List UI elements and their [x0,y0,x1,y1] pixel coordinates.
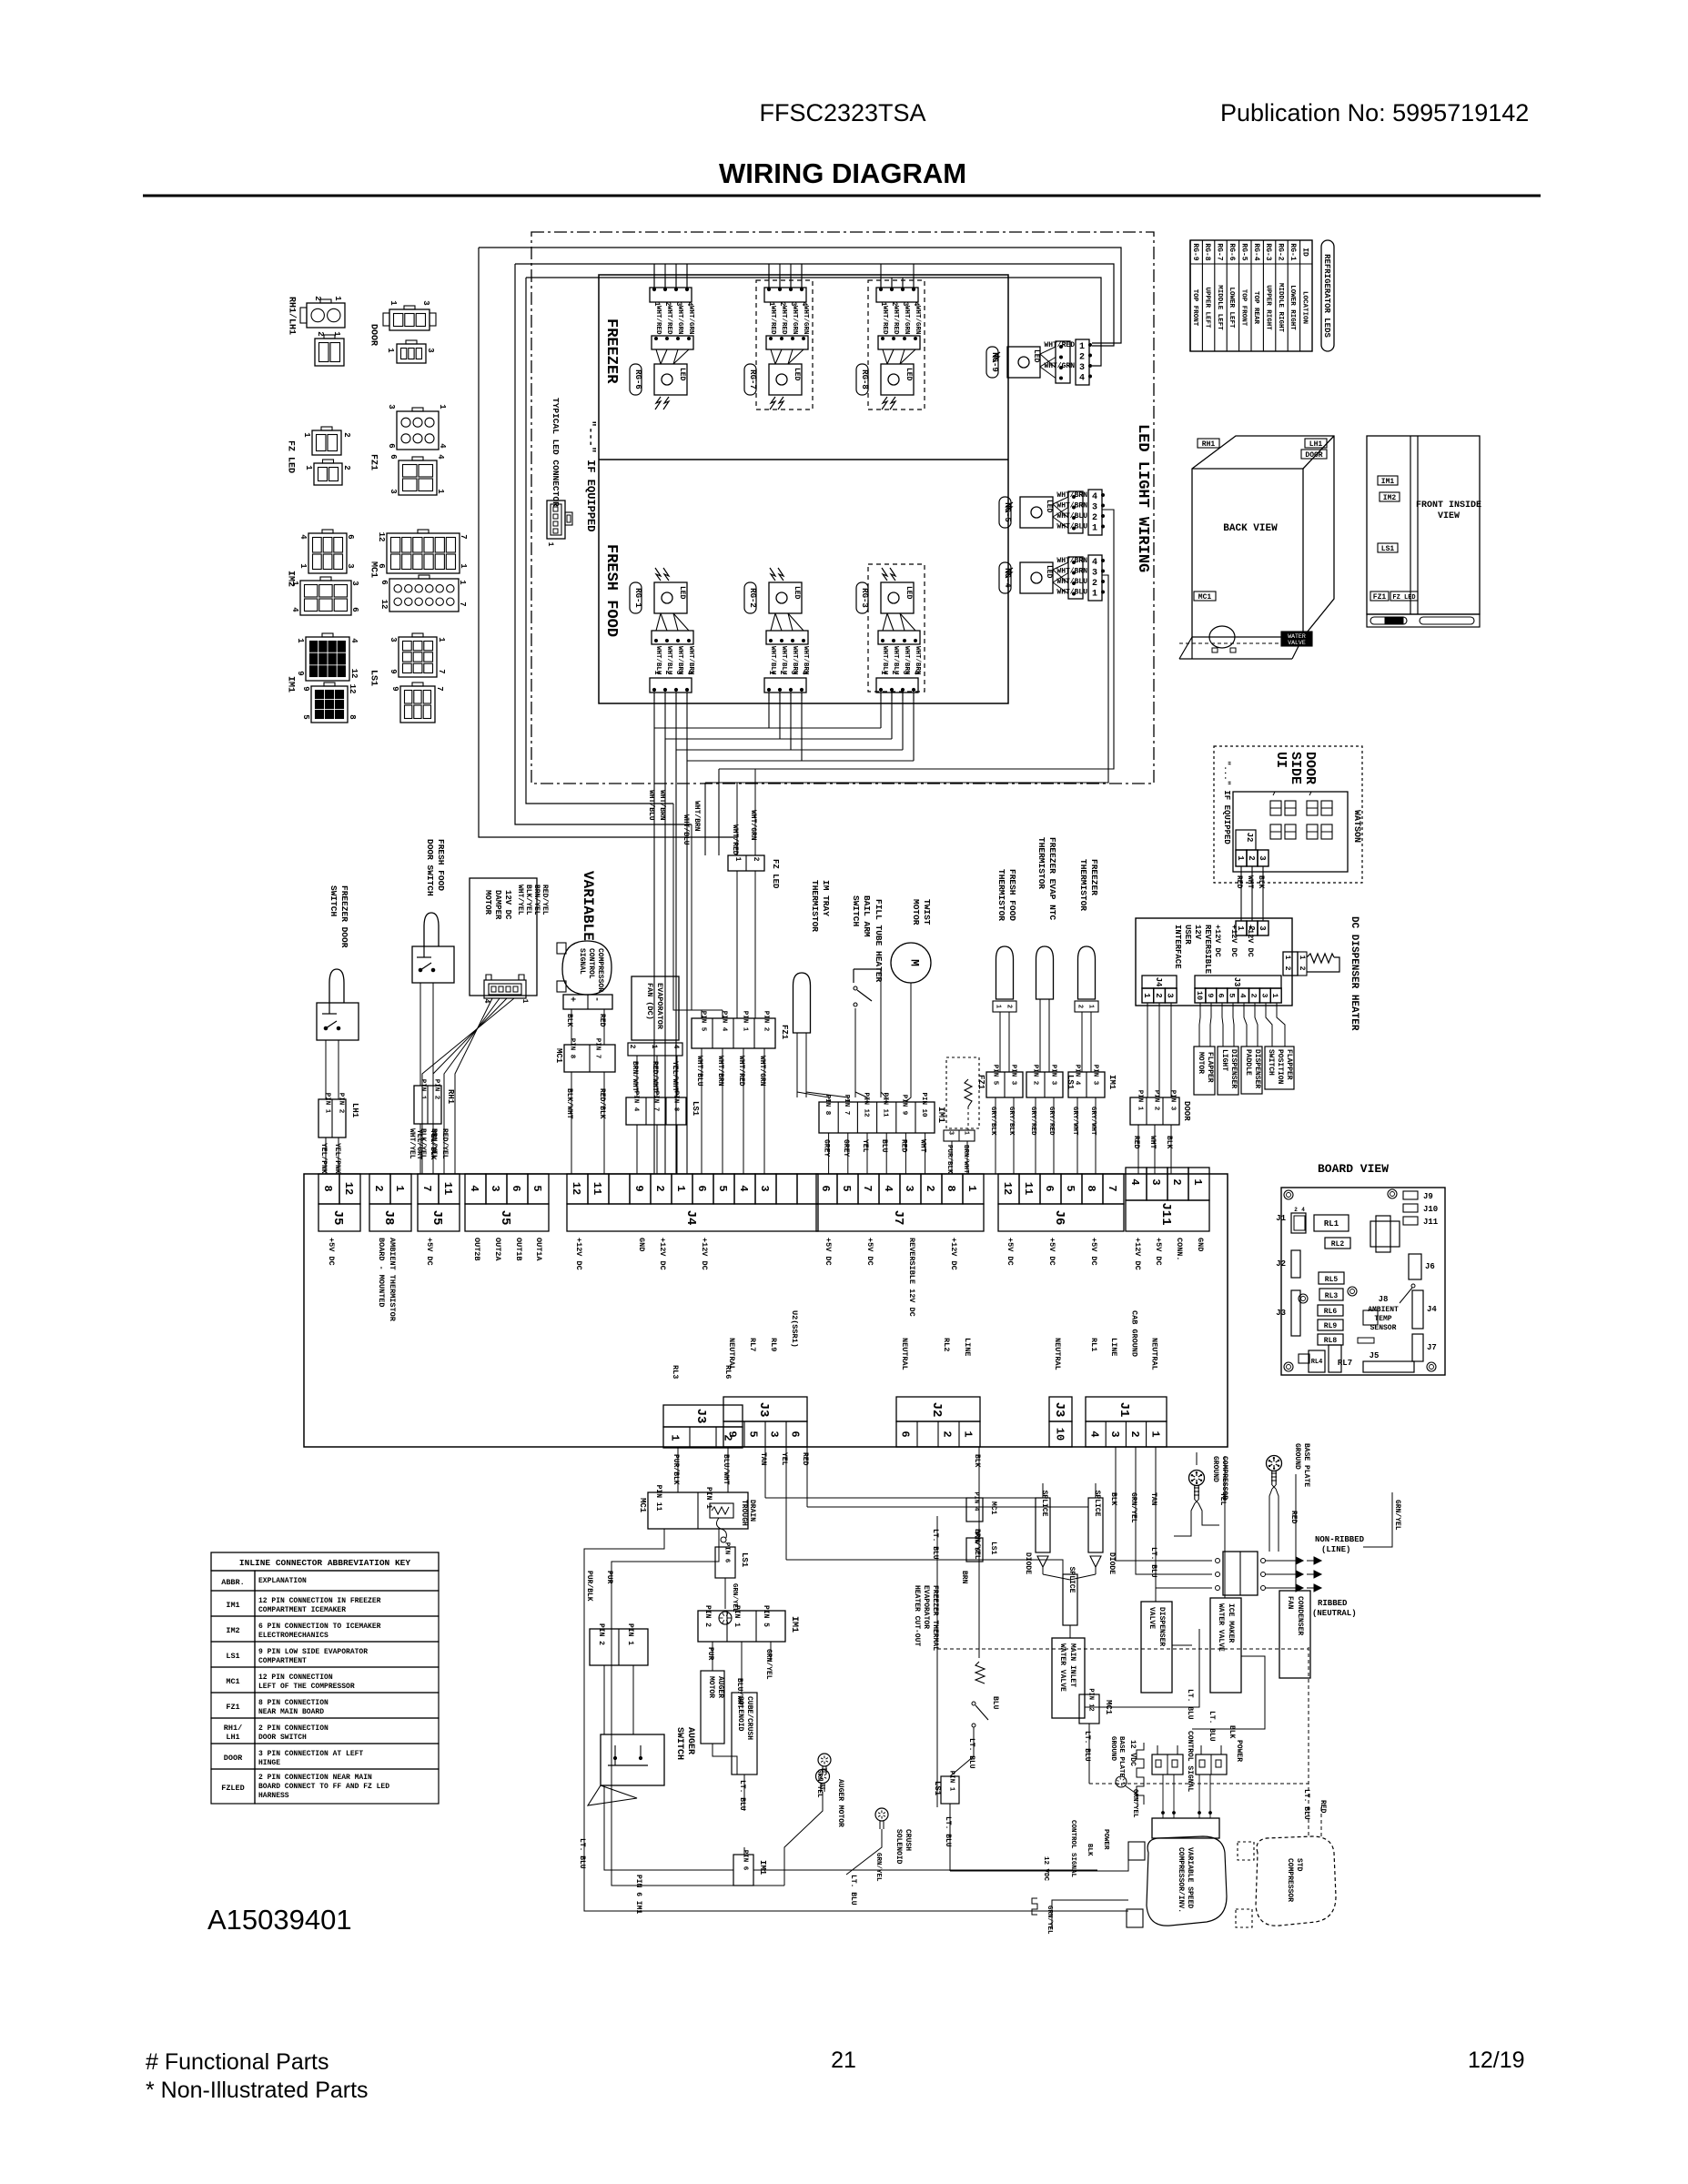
drain trough heater [710,1503,733,1518]
svg-text:BLK: BLK [565,1014,573,1027]
im tray thermistor bulb [793,973,811,1033]
svg-text:LED: LED [1045,565,1053,579]
svg-text:OUT2B: OUT2B [472,1238,481,1261]
svg-text:BLK: BLK [1086,1844,1093,1856]
svg-text:3: 3 [389,489,398,493]
svg-text:LED: LED [1032,349,1040,363]
svg-text:RG-7: RG-7 [1216,243,1224,260]
svg-text:SWITCH: SWITCH [329,885,339,917]
bottom connector J2 [896,1397,980,1421]
svg-text:COMPRESSOR: COMPRESSOR [1286,1858,1294,1902]
front inside view label FZ1 [1370,591,1389,601]
svg-text:8: 8 [321,1185,334,1191]
svg-text:DOOR: DOOR [224,1754,243,1763]
svg-text:GRN/YEL: GRN/YEL [1129,1492,1137,1523]
svg-text:4: 4 [349,638,359,643]
svg-text:YEL: YEL [861,1139,869,1153]
svg-text:PIN 4: PIN 4 [973,1491,980,1511]
svg-text:7: 7 [1106,1185,1118,1191]
svg-text:TOP FRONT: TOP FRONT [1191,289,1198,327]
svg-text:RL2: RL2 [1331,1240,1345,1249]
svg-text:12 VDC: 12 VDC [1042,1856,1049,1882]
FZ LED wires [736,783,738,855]
dispenser valve box [1141,1602,1172,1693]
svg-text:PIN 8: PIN 8 [672,1091,679,1112]
svg-text:RH1: RH1 [1202,440,1216,449]
svg-text:WHT/RED: WHT/RED [737,1056,745,1087]
svg-text:4: 4 [1128,1178,1141,1185]
connector LS1 receptacle view [400,686,435,723]
svg-text:POWER: POWER [1102,1829,1109,1850]
label RG-2 [744,582,756,613]
freezer door switch pin box LH1 [318,1099,346,1137]
svg-text:1: 1 [436,489,445,494]
svg-text:OUT1A: OUT1A [534,1238,543,1261]
svg-text:RL3: RL3 [671,1365,680,1379]
variable speed compressor blob [1147,1836,1227,1926]
connector J3 on user interface [1195,976,1281,988]
svg-text:NON-RIBBED: NON-RIBBED [1315,1535,1365,1544]
cube crush solenoid box [732,1693,757,1774]
svg-text:FREEZER: FREEZER [1089,859,1099,895]
svg-text:THERMISTOR: THERMISTOR [996,869,1006,921]
svg-text:NEUTRAL: NEUTRAL [727,1338,736,1370]
wire loop outer [515,264,1114,346]
svg-text:9: 9 [1206,993,1215,997]
svg-text:GRN/YEL: GRN/YEL [815,1769,823,1798]
svg-text:J8: J8 [381,1210,396,1226]
board view relay RL5 [1319,1272,1344,1284]
svg-text:11: 11 [441,1182,454,1195]
svg-text:COMPRESSOR/INV.: COMPRESSOR/INV. [1177,1847,1185,1913]
svg-text:12V DC: 12V DC [503,890,512,920]
svg-text:SWITCH: SWITCH [1267,1049,1275,1076]
svg-text:FFSC2323TSA: FFSC2323TSA [759,99,925,126]
svg-text:1: 1 [332,331,341,337]
svg-text:USER: USER [1183,925,1192,945]
svg-text:4: 4 [737,1185,750,1191]
svg-text:RG-1: RG-1 [633,588,642,608]
svg-text:J5: J5 [498,1210,512,1226]
label RG-9 [986,347,998,378]
svg-text:6: 6 [379,580,389,584]
svg-text:TROUGH: TROUGH [740,1500,748,1526]
connector RH1/LH1 receptacle view [315,339,344,366]
svg-text:2: 2 [924,1185,936,1191]
wires user interface J4 to DOOR connector [1147,1003,1148,1097]
connector IM1 plug view [306,637,349,681]
svg-text:+12V DC: +12V DC [1213,925,1222,957]
freezer / fresh food LED enclosure [599,275,1008,703]
svg-text:STD: STD [1295,1858,1303,1872]
svg-text:LS1: LS1 [691,1101,700,1117]
connector IM2 receptacle view [300,581,351,615]
connector FZ LED plug view [312,430,341,455]
svg-text:DOOR: DOOR [1182,1101,1191,1121]
evaporator fan connector [628,1043,682,1056]
std compressor dashed wires [1308,1647,1309,1836]
svg-text:COMPARTMENT ICEMAKER: COMPARTMENT ICEMAKER [258,1606,346,1614]
FZ1 wires down [701,1048,702,1174]
svg-text:LS1: LS1 [933,1781,942,1796]
svg-text:J5: J5 [430,1210,444,1226]
svg-text:1: 1 [290,581,299,586]
connector J6 pin row [998,1174,1019,1204]
connector J8 pin row [369,1174,390,1204]
flapper motor box [1194,1046,1215,1095]
svg-text:MOTOR: MOTOR [1197,1052,1205,1074]
svg-text:BLK/WHT: BLK/WHT [565,1088,573,1119]
svg-text:RL5: RL5 [1325,1276,1339,1284]
svg-text:6: 6 [387,443,396,448]
svg-text:2: 2 [1298,966,1306,971]
freezer thermistor inline pins [1075,1001,1098,1012]
connector J4 on user interface [1142,976,1177,988]
svg-text:J3: J3 [756,1402,771,1418]
svg-text:3: 3 [1079,363,1085,373]
svg-text:7: 7 [420,1185,433,1191]
svg-text:J3: J3 [693,1409,708,1424]
svg-text:PUR/BLK: PUR/BLK [585,1571,593,1602]
svg-text:1: 1 [963,1131,970,1135]
svg-text:DISPENSER: DISPENSER [1229,1049,1238,1088]
svg-text:12/19: 12/19 [1468,2047,1525,2073]
svg-text:7: 7 [437,669,446,673]
svg-text:FREEZER EVAP NTC: FREEZER EVAP NTC [1047,837,1057,921]
wires J1 J2 to power cord [1116,1447,1212,1561]
svg-text:7: 7 [459,534,468,539]
svg-text:RG-4: RG-4 [1003,568,1012,588]
svg-text:CAB GROUND: CAB GROUND [1129,1310,1138,1357]
connector J4 pin row [567,1174,588,1204]
svg-text:1: 1 [304,465,313,470]
svg-text:4: 4 [298,534,308,540]
svg-text:(NEUTRAL): (NEUTRAL) [1312,1609,1357,1618]
svg-text:11: 11 [1022,1182,1035,1195]
svg-text:3: 3 [901,671,909,675]
svg-text:WHT/BLU: WHT/BLU [1056,523,1087,531]
compressor ground lug [1189,1471,1205,1486]
svg-text:ID: ID [1300,248,1309,257]
svg-text:BLK: BLK [1257,875,1265,889]
connector IM1 receptacle view [311,686,348,723]
base plate ground small lug [1116,1776,1127,1787]
svg-text:M: M [907,959,921,966]
svg-text:MOTOR: MOTOR [483,890,492,915]
svg-text:2: 2 [342,432,351,437]
LED lamp RG-9 [1007,347,1040,378]
svg-text:2: 2 [1128,1431,1141,1437]
svg-text:BRN/YEL: BRN/YEL [430,1128,438,1159]
svg-text:GRY/BLK: GRY/BLK [1007,1107,1015,1136]
svg-text:6: 6 [346,534,355,539]
svg-text:1: 1 [393,1185,406,1191]
svg-text:SIDE: SIDE [1288,752,1303,784]
wires from RG-5/RG-4 to right side [719,510,1114,769]
board view mounting holes [1284,1190,1293,1199]
svg-text:WATER: WATER [1288,633,1306,640]
svg-text:PIN 2: PIN 2 [762,1011,769,1032]
connector IM2 plug view [308,533,347,573]
svg-text:DAMPER: DAMPER [493,890,502,920]
svg-text:9: 9 [390,686,399,691]
connector J4 label [567,1204,818,1231]
svg-text:POSITION: POSITION [1276,1049,1284,1085]
dispenser light box [1218,1046,1238,1095]
LS1 pin box for evap fan [626,1097,686,1125]
svg-text:+5V DC: +5V DC [1006,1238,1015,1266]
LED lamp RG-3 [882,568,887,581]
svg-text:LOWER LEFT: LOWER LEFT [1228,287,1235,329]
svg-text:PIN 7: PIN 7 [843,1095,850,1116]
svg-text:3: 3 [421,300,430,305]
svg-text:OUT1B: OUT1B [514,1238,523,1261]
long LT BLU runs [584,1807,1128,1911]
FZ1 inline connector 8pin [692,1018,775,1048]
svg-text:1: 1 [521,999,529,1004]
svg-text:1: 1 [298,563,308,569]
svg-text:FILL TUBE HEATER: FILL TUBE HEATER [874,899,884,983]
svg-text:2: 2 [752,857,760,862]
svg-text:GRY/BLK: GRY/BLK [989,1107,996,1136]
svg-text:TAN: TAN [1149,1492,1157,1506]
IM1 strip pins 2 1 5 [698,1611,785,1642]
svg-text:IM1: IM1 [285,676,295,693]
fill tube heater dotted box and resistor [946,1057,979,1128]
svg-text:LT. BLU: LT. BLU [931,1529,939,1560]
freezer evap thermistor pin box LS1 [1026,1072,1063,1097]
svg-text:GROUND: GROUND [1293,1443,1301,1470]
svg-text:J11: J11 [1423,1218,1439,1227]
board view relay RL6 [1318,1305,1343,1316]
svg-text:LS1: LS1 [226,1652,239,1661]
svg-text:+5V DC: +5V DC [824,1238,833,1266]
svg-text:RG-4: RG-4 [1252,243,1260,260]
svg-text:6: 6 [1043,1185,1056,1191]
svg-text:MC1: MC1 [226,1677,239,1686]
svg-text:RG-5: RG-5 [1239,243,1248,260]
board view U2 part [1299,1354,1309,1363]
svg-text:RG-1: RG-1 [1289,243,1297,260]
svg-text:RL4: RL4 [1311,1359,1323,1366]
svg-text:3: 3 [1258,855,1267,860]
svg-text:6: 6 [377,563,386,568]
LED lamp RG-5 [1020,497,1053,528]
svg-text:WHT/RED: WHT/RED [881,306,888,335]
board view connector J7 (board) [1412,1334,1423,1361]
wires user interface J3 to dispenser loads [1199,1003,1200,1046]
svg-text:WHT/YEL: WHT/YEL [516,885,524,915]
svg-text:PIN 5: PIN 5 [973,1532,980,1551]
svg-text:PIN 7: PIN 7 [652,1091,659,1112]
base plate ground lug [1267,1456,1282,1471]
svg-text:CONTROL SIGNAL: CONTROL SIGNAL [1069,1820,1076,1878]
svg-text:4: 4 [800,671,808,675]
svg-text:5: 5 [716,1185,729,1191]
IM1 icemaker strip [819,1102,935,1133]
svg-text:4: 4 [685,671,693,675]
svg-text:THERMISTOR: THERMISTOR [810,880,820,932]
svg-text:J4: J4 [683,1210,698,1226]
svg-text:21: 21 [831,2047,856,2073]
svg-text:DOOR: DOOR [1302,752,1318,784]
svg-text:RL1: RL1 [1089,1338,1098,1351]
svg-text:BOARD VIEW: BOARD VIEW [1318,1162,1389,1176]
board view connector J3 (board) [1291,1290,1300,1336]
svg-text:LIGHT: LIGHT [1220,1049,1228,1071]
main control board outline [304,1174,1228,1447]
board view relay RL8 [1318,1334,1343,1345]
svg-text:PIN 8: PIN 8 [568,1038,575,1059]
svg-text:2: 2 [1076,1005,1084,1008]
svg-text:12: 12 [348,684,357,694]
svg-text:AUGER MOTOR: AUGER MOTOR [836,1779,844,1827]
svg-text:2: 2 [653,1185,666,1191]
board view relay RL1 [1314,1215,1349,1231]
12vdc ground squiggle [1032,1898,1037,1915]
svg-text:PIN 11: PIN 11 [882,1092,889,1117]
svg-text:6 PIN CONNECTION TO ICEMAKER: 6 PIN CONNECTION TO ICEMAKER [258,1623,381,1631]
damper motor connector [484,980,526,998]
connector J8 label [369,1204,411,1231]
svg-text:7: 7 [458,602,467,606]
svg-text:PIN 1: PIN 1 [947,1771,955,1792]
title rule [143,195,1541,197]
svg-text:WHT/BRN: WHT/BRN [692,801,701,832]
svg-text:LT. BLU: LT. BLU [1186,1689,1194,1720]
svg-text:J7: J7 [1427,1343,1437,1352]
wires watson to user interface [1240,866,1242,921]
svg-text:RL2: RL2 [942,1338,951,1351]
svg-text:MC1: MC1 [1104,1700,1113,1715]
svg-text:3: 3 [674,671,682,675]
svg-text:PIN 3: PIN 3 [1009,1065,1016,1086]
svg-text:NEUTRAL: NEUTRAL [1150,1338,1159,1370]
svg-text:FRESH FOOD: FRESH FOOD [602,544,620,637]
svg-text:J2: J2 [929,1402,944,1418]
svg-text:MC1: MC1 [368,561,378,578]
wires from fresh food lamps down to risers [653,693,655,728]
svg-text:4: 4 [438,443,447,449]
svg-text:IM1: IM1 [1107,1075,1117,1090]
svg-text:PADDLE: PADDLE [1244,1049,1252,1076]
svg-text:LH1: LH1 [226,1733,239,1742]
label RG-8 [856,364,868,395]
svg-text:J10: J10 [1423,1205,1438,1214]
svg-text:2: 2 [1170,1178,1183,1185]
connector J2 on watson [1236,830,1256,850]
svg-text:RH1: RH1 [446,1089,455,1105]
wire auger switch to IM1 pin 6 long [604,1785,733,1870]
svg-text:GRY/WHT: GRY/WHT [1071,1107,1078,1136]
svg-text:TYPICAL LED CONNECTOR: TYPICAL LED CONNECTOR [551,398,561,507]
svg-text:1: 1 [333,296,342,301]
svg-text:COMPRESSOR: COMPRESSOR [1220,1456,1228,1500]
svg-text:6: 6 [350,607,359,612]
svg-text:4: 4 [1092,492,1097,502]
svg-text:WHT/GRN: WHT/GRN [749,810,757,841]
svg-text:GREY: GREY [842,1139,850,1157]
svg-text:RL9: RL9 [1324,1322,1338,1330]
svg-text:HINGE: HINGE [258,1759,280,1767]
svg-text:PIN 4: PIN 4 [1073,1065,1080,1086]
svg-text:LED: LED [678,368,686,381]
svg-text:PIN 1: PIN 1 [733,1605,741,1627]
inline connector abbreviation key table [211,1552,439,1571]
svg-text:GRN/YEL: GRN/YEL [1393,1500,1401,1531]
svg-text:REFRIGERATOR LEDS: REFRIGERATOR LEDS [1322,254,1331,338]
svg-text:RG-8: RG-8 [860,369,869,389]
LED lamp RG-1 [655,568,661,581]
fresh food thermistor pin box FZ1 [986,1072,1023,1097]
svg-text:BLK: BLK [1228,1725,1236,1739]
svg-text:BRN/YEL: BRN/YEL [532,885,541,915]
svg-text:RED/YEL: RED/YEL [541,885,549,915]
svg-text:RG-8: RG-8 [1203,243,1211,260]
svg-text:1: 1 [1191,1178,1204,1185]
svg-text:FREEZER THERMAL: FREEZER THERMAL [931,1585,939,1651]
svg-text:5: 5 [531,1185,543,1191]
svg-text:THERMISTOR: THERMISTOR [1036,837,1046,889]
diode 2 [1090,1556,1101,1567]
svg-text:RG-6: RG-6 [1228,243,1236,260]
svg-text:INLINE CONNECTOR ABBREVIATION: INLINE CONNECTOR ABBREVIATION KEY [239,1558,410,1568]
svg-text:3: 3 [1149,1178,1162,1185]
bottom connector J3 pin10 [1049,1397,1072,1421]
svg-text:8: 8 [348,714,357,719]
connector DOOR plug view [389,309,430,330]
svg-text:RED: RED [598,1014,606,1027]
svg-text:9: 9 [296,671,305,675]
auger switch symbol [601,1734,664,1785]
fresh food door switch pin box RH1 [414,1086,441,1124]
svg-text:2: 2 [342,465,351,470]
svg-text:FRESH FOOD: FRESH FOOD [436,839,446,891]
board view connectors J9 J10 J11 [1403,1191,1418,1199]
svg-text:3: 3 [350,581,359,585]
board view relay RL7 [1329,1345,1341,1372]
svg-text:# Functional Parts: # Functional Parts [146,2049,329,2075]
wire loop outermost [479,248,1121,343]
svg-text:1: 1 [1142,993,1151,998]
svg-text:3: 3 [789,671,797,675]
label RG-3 [856,582,868,613]
svg-text:POWER: POWER [1235,1740,1243,1762]
svg-text:FZ1: FZ1 [368,454,378,470]
svg-text:BASE PLATE: BASE PLATE [1302,1443,1310,1487]
svg-text:12 PIN CONNECTION IN FREEZER: 12 PIN CONNECTION IN FREEZER [258,1597,381,1605]
svg-text:PIN 2: PIN 2 [703,1605,712,1627]
svg-text:1: 1 [650,1045,658,1049]
svg-text:PIN 11: PIN 11 [654,1485,662,1512]
compressor mount tabs [1128,1842,1145,1860]
svg-text:MC1: MC1 [1198,593,1212,602]
svg-text:LS1: LS1 [368,670,378,686]
svg-text:PIN 1: PIN 1 [1136,1090,1143,1111]
svg-text:RG-2: RG-2 [748,588,757,608]
svg-text:LED: LED [905,586,913,600]
svg-text:GROUND: GROUND [1211,1456,1219,1482]
svg-text:1: 1 [1092,524,1097,534]
svg-text:2: 2 [1248,993,1258,997]
grn yel wire to compressor [1052,1900,1128,1929]
door side ui dashed enclosure [1214,746,1362,883]
svg-text:7: 7 [861,1185,874,1191]
svg-text:CONDENSER: CONDENSER [1296,1596,1304,1635]
svg-text:PUR: PUR [706,1647,714,1661]
svg-text:J3: J3 [1052,1402,1066,1418]
svg-text:MC1: MC1 [554,1048,563,1064]
